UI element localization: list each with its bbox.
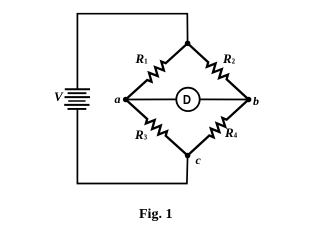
wire detector to node b [200, 98, 249, 100]
resistor R1 [126, 43, 188, 99]
node c [185, 153, 191, 159]
wire node a to detector [126, 98, 177, 100]
label R1 [136, 51, 148, 67]
resistor R4 [188, 100, 249, 156]
wire bottom rail [77, 110, 187, 184]
battery V [64, 89, 90, 109]
node a [123, 97, 129, 103]
resistor R2 [188, 43, 249, 99]
label b [253, 94, 259, 109]
resistor R3 [126, 100, 188, 156]
label R3 [135, 127, 147, 143]
label R2 [223, 51, 235, 67]
caption Fig. 1 [139, 207, 172, 223]
label R4 [225, 125, 237, 141]
detector D circle [176, 88, 199, 111]
wire top rail [77, 14, 187, 89]
label D [177, 92, 198, 107]
label a [115, 92, 121, 107]
label c [196, 153, 201, 168]
node top junction [185, 41, 191, 47]
label V [54, 89, 63, 105]
node b [246, 97, 252, 103]
